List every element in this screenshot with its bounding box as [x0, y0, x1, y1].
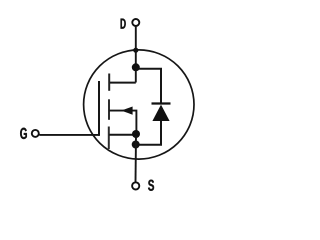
- arrowhead body arrow pointing left: [121, 107, 132, 115]
- junction dot A source node: [132, 130, 140, 138]
- wire source vertical to terminal: [135, 136, 138, 182]
- label D (drain): [121, 19, 126, 29]
- transistor Q1 envelope circle: [84, 50, 194, 159]
- junction dot B diode node: [132, 141, 140, 149]
- wire diode bottom branch: [136, 121, 161, 145]
- terminal D open circle: [132, 19, 139, 26]
- diode D1 cathode bar: [152, 102, 171, 104]
- terminal S open circle: [132, 182, 139, 189]
- junction dot drain-diode node: [132, 63, 140, 71]
- channel segment bottom: [108, 127, 110, 150]
- label S (source): [148, 180, 154, 191]
- wire source stub from bottom channel: [109, 134, 136, 136]
- wire source-body leg with corner: [109, 111, 136, 134]
- gate bar: [98, 81, 100, 136]
- wire diode top branch: [136, 69, 161, 104]
- label G (gate): [20, 128, 27, 139]
- diode D1 triangle (anode): [152, 105, 169, 121]
- wire gate lead: [39, 134, 99, 136]
- junction dot on envelope top: [133, 48, 138, 53]
- wire drain to channel top stub: [109, 82, 136, 84]
- channel segment middle: [108, 99, 110, 120]
- channel segment top: [108, 74, 110, 91]
- terminal G open circle: [32, 130, 39, 137]
- wire drain vertical: [135, 27, 137, 83]
